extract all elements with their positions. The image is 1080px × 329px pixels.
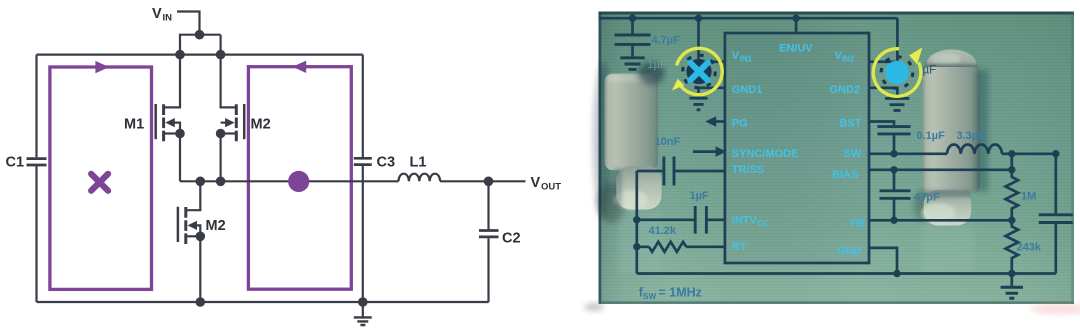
node VIN lead wire: [177, 12, 200, 35]
capacitor COUT: [1039, 215, 1073, 223]
node COUT right: [1052, 150, 1059, 157]
resistor 243k: [1006, 220, 1019, 273]
node mid rail right: [216, 177, 226, 187]
pin SYNC/MODE input arrow tail: [693, 150, 716, 153]
wire L1 to VOUT: [440, 180, 525, 182]
wire SW rail: [869, 152, 947, 155]
input capacitor CIN2 photo cylinder: [914, 50, 988, 274]
svg-text:47pF: 47pF: [914, 192, 940, 204]
flux out of page symbol dot: [288, 171, 309, 192]
svg-text:GND: GND: [837, 246, 862, 258]
node FB divider: [1008, 217, 1015, 224]
capacitor C1: [27, 159, 47, 165]
rotation arrow ring right (yellow): [873, 47, 922, 96]
svg-text:3.3µH: 3.3µH: [957, 130, 987, 142]
label fSW = 1MHz: [639, 286, 702, 302]
wire BST lead: [869, 122, 894, 154]
svg-text:V: V: [531, 175, 541, 191]
wire EN/UV drop: [795, 18, 798, 32]
node FB 47pF: [890, 217, 897, 224]
pin PG arrowhead: [705, 116, 716, 126]
svg-text:1M: 1M: [1021, 191, 1036, 203]
svg-text:V: V: [732, 50, 740, 62]
wire outer box left edge lower: [35, 166, 37, 302]
svg-text:INTV: INTV: [732, 214, 758, 226]
loop 1 direction arrow: [95, 61, 109, 73]
svg-text:BST: BST: [840, 117, 862, 129]
wire input top rail: [599, 17, 898, 20]
ground GND1: [689, 98, 707, 110]
svg-text:1µF: 1µF: [648, 59, 667, 71]
transistor M2 bottom: [178, 181, 200, 244]
svg-text:TR/SS: TR/SS: [732, 164, 764, 176]
wire FB rail: [869, 219, 1012, 222]
hot loop 2 (purple): [248, 67, 351, 290]
wire GND2: [869, 88, 897, 97]
flux symbol X (into page) at VIN1: [683, 55, 716, 88]
svg-text:243k: 243k: [1017, 242, 1042, 254]
inductor L1: [399, 174, 441, 182]
wire switch node mid rail: [180, 180, 399, 182]
node BIAS 1M: [1008, 166, 1015, 173]
capacitor C3: [354, 158, 372, 164]
svg-text:RT: RT: [732, 241, 747, 253]
wire GND1: [699, 88, 724, 97]
wire bottom ground rail: [637, 272, 1056, 275]
input capacitor CIN1 photo cylinder: [593, 62, 665, 272]
scan artifact gray wisp: [584, 303, 604, 311]
svg-text:C1: C1: [6, 155, 25, 171]
ground output: [1010, 274, 1013, 286]
ground GND2: [885, 98, 909, 110]
capacitor 0.1uF BST: [878, 127, 911, 134]
node top rail EN/UV: [792, 15, 799, 22]
node mid rail left: [196, 177, 206, 187]
node VOUT junction: [484, 177, 494, 187]
wire M2 source column: [220, 134, 222, 182]
svg-text:FB: FB: [850, 218, 865, 230]
node M1 source body: [175, 129, 185, 139]
wire output cap branch: [1054, 154, 1057, 274]
svg-text:10nF: 10nF: [655, 136, 681, 148]
svg-text:IN2: IN2: [842, 54, 855, 63]
pin label VIN2: [835, 50, 855, 63]
svg-text:OUT: OUT: [541, 182, 561, 193]
node INTVCC tap: [633, 216, 640, 223]
node top rail VIN1: [695, 15, 702, 22]
svg-text:C2: C2: [502, 231, 521, 247]
hot loop 1 (purple): [50, 67, 152, 289]
node bottom rail ground: [358, 297, 368, 307]
ground: [354, 302, 372, 325]
pin SYNC/MODE arrowhead: [716, 146, 727, 156]
node L out: [1008, 150, 1015, 157]
wire VIN1 drop: [699, 18, 724, 62]
svg-text:1µF: 1µF: [690, 190, 709, 202]
svg-text:= 1MHz: = 1MHz: [659, 286, 702, 300]
inductor 3.3uH: [947, 144, 1002, 153]
wire RT lead: [637, 245, 725, 248]
capacitor 47pF leads: [893, 170, 896, 221]
wire outer box right edge lower: [362, 166, 364, 302]
wire bottom rail: [37, 301, 489, 303]
node BIAS 47pF: [890, 166, 897, 173]
pin label VIN1: [732, 50, 753, 63]
wire INTVCC: [637, 218, 725, 221]
wire M2 bottom source column: [199, 236, 201, 302]
wire VIN bridge: [179, 35, 221, 55]
capacitor 4.7uF: [615, 35, 651, 44]
transistor M1: [156, 55, 180, 142]
svg-text:M1: M1: [124, 117, 144, 133]
rotation arrow ring left (yellow): [672, 48, 722, 94]
node top rail 4.7uF: [629, 15, 636, 22]
svg-text:V: V: [152, 6, 162, 22]
label VOUT: [531, 175, 562, 193]
wire left branch vertical: [635, 171, 638, 274]
svg-text:GND1: GND1: [732, 84, 763, 96]
svg-text:4.7µF: 4.7µF: [652, 34, 681, 46]
flux into page symbol X: [91, 174, 108, 191]
node GND rail: [893, 270, 900, 277]
resistor 41.2k: [649, 242, 686, 252]
wire M1 source column: [179, 134, 181, 182]
ground 4.7uF: [620, 58, 644, 70]
wire L out: [1002, 152, 1056, 155]
capacitor 47pF: [880, 191, 911, 199]
svg-text:L1: L1: [410, 155, 427, 171]
svg-text:PG: PG: [732, 117, 748, 129]
wire BIAS rail: [869, 154, 1012, 170]
svg-text:0.1µF: 0.1µF: [917, 130, 946, 142]
svg-text:GND2: GND2: [830, 84, 861, 96]
svg-text:SW: SW: [643, 292, 656, 301]
svg-text:C3: C3: [377, 155, 396, 171]
pin label INTVCC: [732, 214, 769, 228]
node bottom rail M2: [196, 297, 206, 307]
capacitor 10nF: [664, 157, 674, 186]
flux symbol dot (out of page) at VIN2: [881, 57, 913, 89]
node top rail left: [175, 50, 185, 60]
node VIN junction: [195, 30, 205, 40]
wire outer box right edge upper: [362, 55, 364, 157]
node top rail right: [216, 50, 226, 60]
svg-text:IN1: IN1: [740, 54, 753, 63]
svg-text:CC: CC: [758, 219, 770, 228]
svg-text:µF: µF: [923, 65, 937, 77]
capacitor 4.7uF leads: [631, 18, 634, 56]
node M2 bottom source: [196, 232, 206, 242]
capacitor C2 leads: [487, 181, 489, 302]
label VIN: [152, 6, 172, 24]
wire GND pin: [869, 248, 897, 274]
capacitor C2: [479, 231, 499, 237]
pin PG output arrow: [716, 120, 725, 123]
svg-text:EN/UV: EN/UV: [779, 42, 813, 54]
svg-text:SW: SW: [844, 148, 862, 160]
node ground rail divider: [1008, 270, 1015, 277]
svg-text:M2: M2: [206, 218, 226, 234]
transistor M2 top: [221, 55, 245, 142]
svg-text:BIAS: BIAS: [832, 169, 858, 181]
node M2 source body: [216, 129, 226, 139]
wire TR/SS: [637, 170, 725, 173]
svg-text:41.2k: 41.2k: [649, 225, 677, 237]
wire VIN2: [869, 18, 897, 62]
loop 2 direction arrow: [292, 61, 306, 73]
scan artifact pink smudge: [1030, 304, 1080, 315]
wire outer box left edge upper: [35, 55, 37, 158]
capacitor 1uF: [695, 206, 706, 234]
wire outer box top rail: [37, 53, 363, 55]
node RT tap: [633, 243, 640, 250]
node SW BST: [890, 150, 897, 157]
resistor 1M: [1006, 170, 1019, 221]
svg-text:M2: M2: [251, 117, 271, 133]
op-amp U1 IC body: [725, 33, 869, 263]
svg-text:IN: IN: [163, 13, 173, 24]
svg-text:SYNC/MODE: SYNC/MODE: [732, 148, 799, 160]
PCB photo panel background: [599, 12, 1075, 305]
